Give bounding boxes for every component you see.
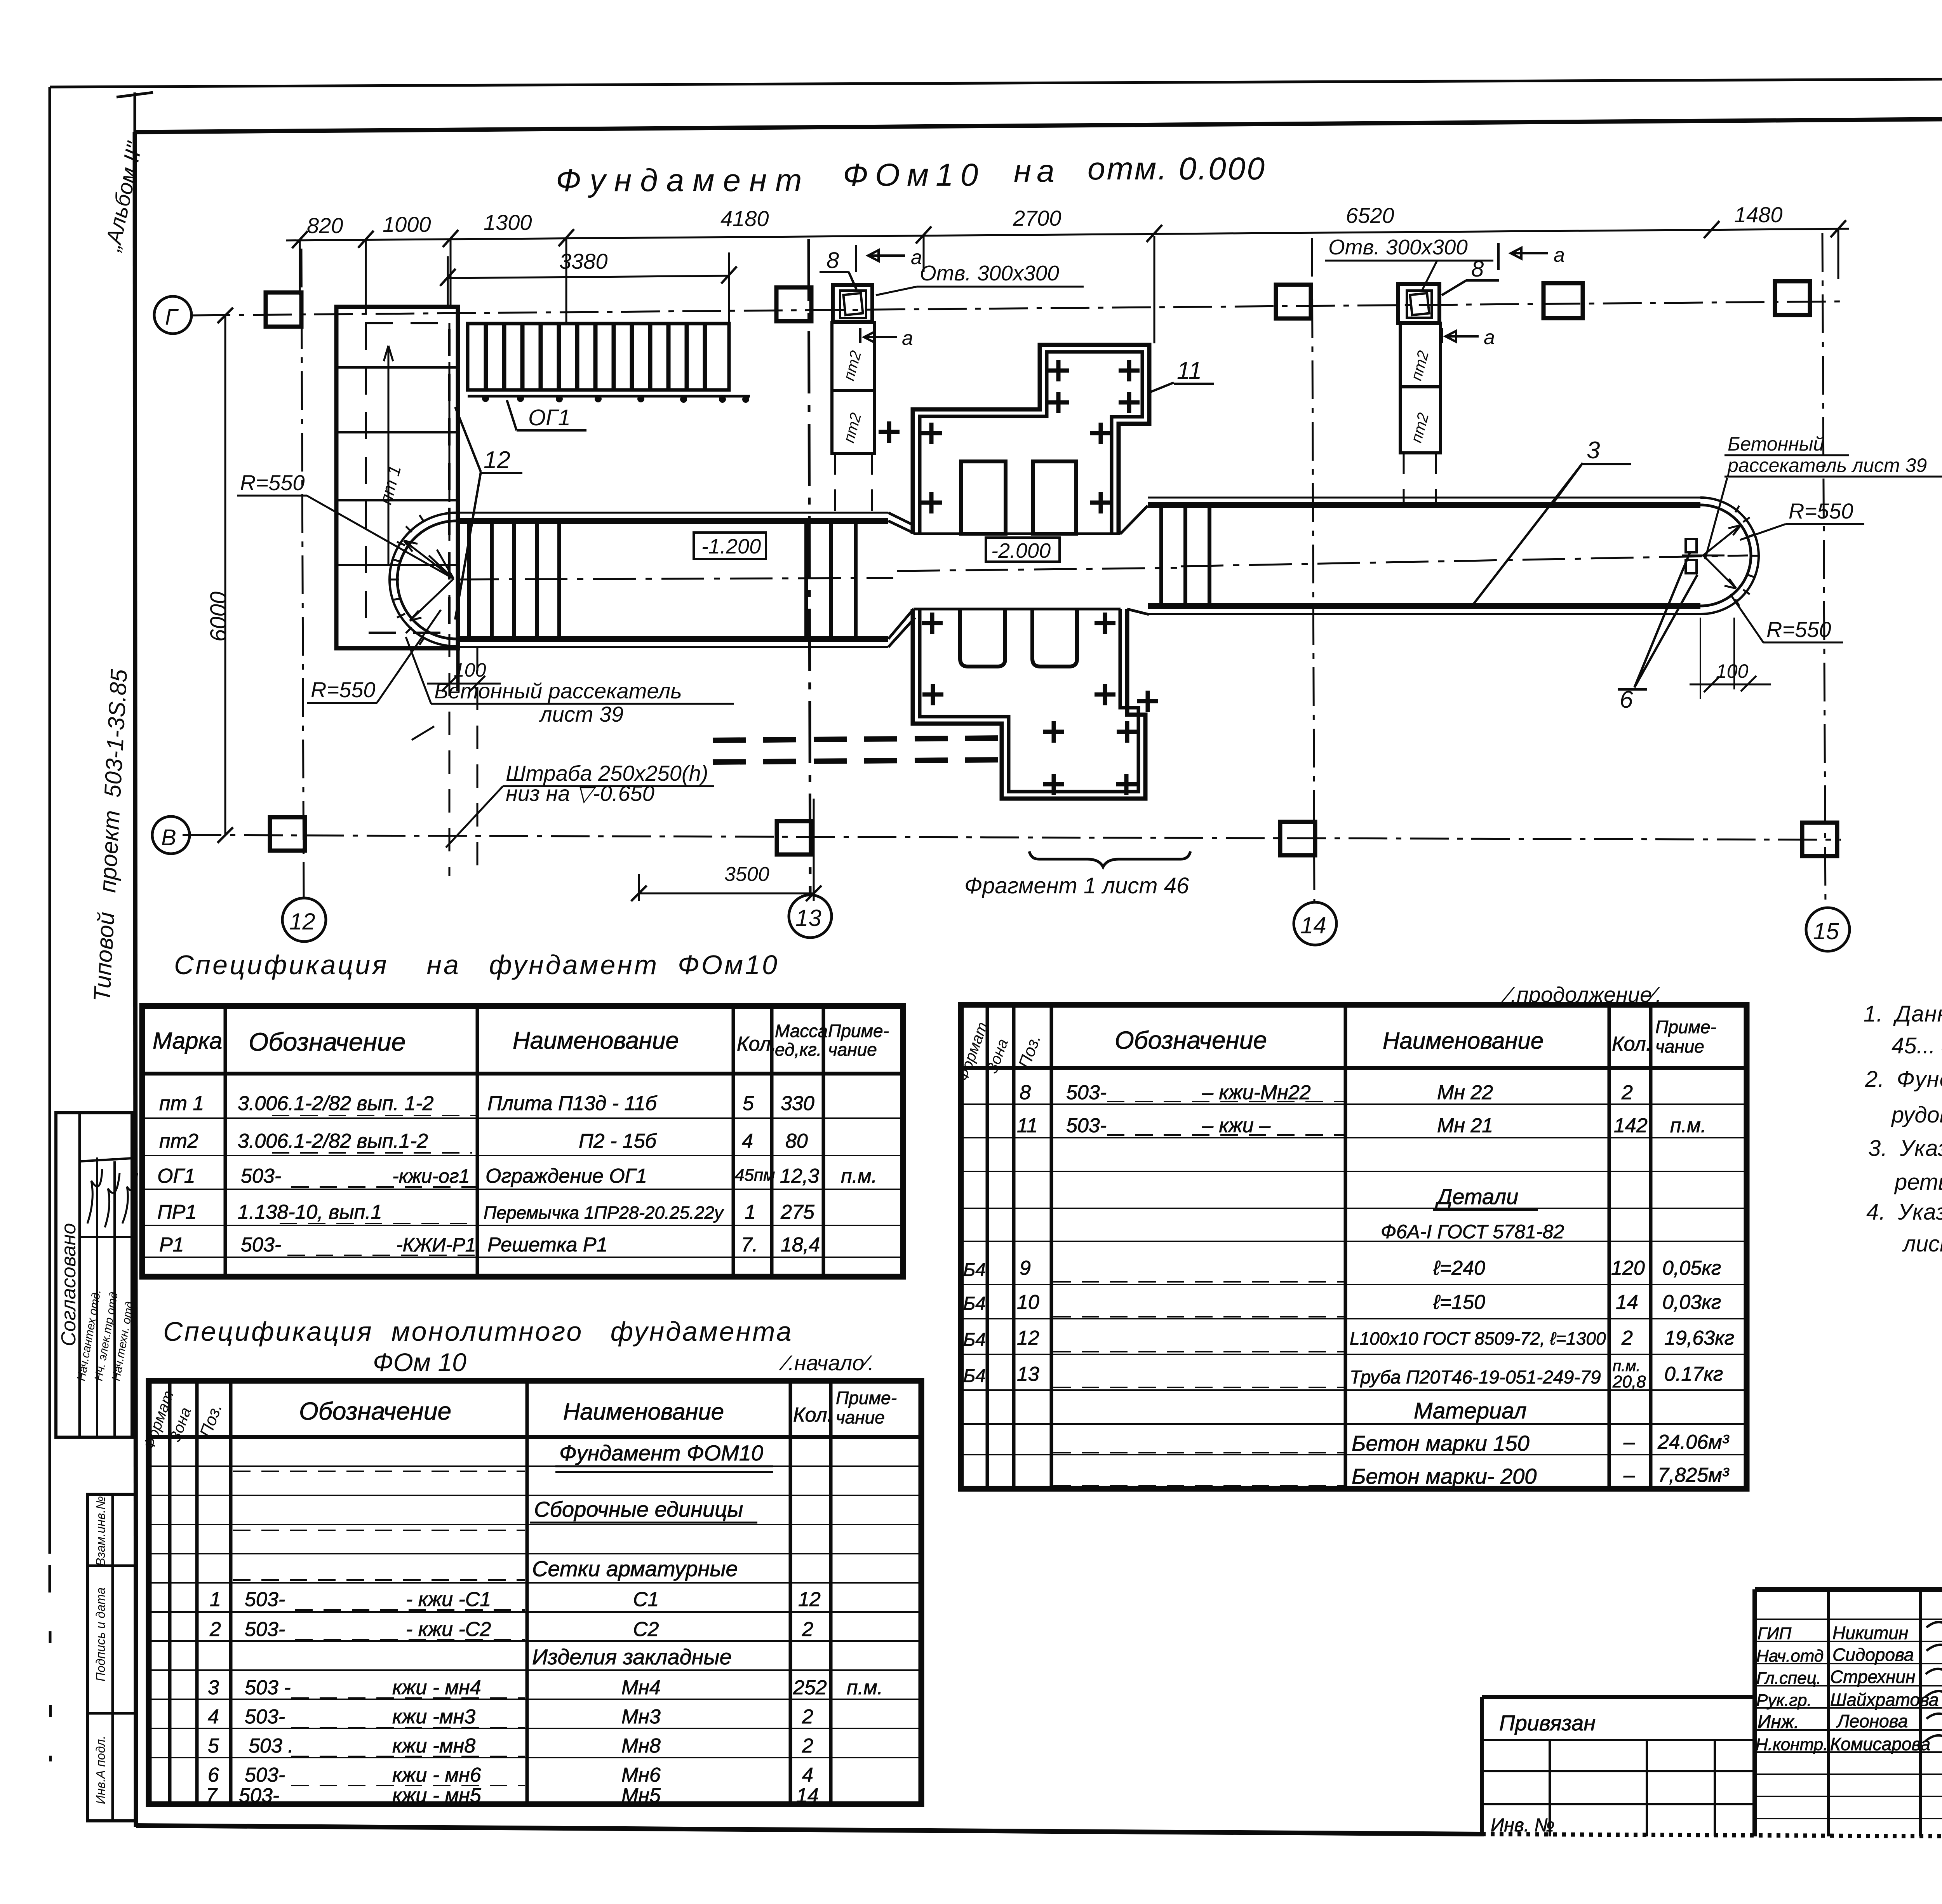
- svg-text:503-: 503-: [241, 1165, 281, 1187]
- trench bars before neck: [806, 521, 856, 639]
- svg-text:В: В: [161, 825, 176, 850]
- svg-text:24.06м³: 24.06м³: [1657, 1431, 1730, 1453]
- svg-text:-1.200: -1.200: [701, 535, 761, 558]
- radius arrows inside left arc: [404, 541, 454, 621]
- svg-text:ГИП: ГИП: [1758, 1624, 1791, 1643]
- svg-text:низ на ▽-0.650: низ на ▽-0.650: [506, 781, 654, 806]
- table3 outer border: [149, 1381, 921, 1804]
- trench right section bottom edges: [1148, 603, 1700, 609]
- signature column verticals: [1829, 1589, 1942, 1836]
- svg-text:Детали: Детали: [1435, 1184, 1518, 1209]
- sub dimension line 3380: [448, 276, 729, 278]
- svg-text:Сетки арматурные: Сетки арматурные: [532, 1556, 738, 1581]
- svg-text:Фрагмент 1 лист 46: Фрагмент 1 лист 46: [964, 873, 1189, 898]
- пт1 inner dashed rectangle: [366, 323, 449, 633]
- svg-text:-2.000: -2.000: [991, 539, 1051, 562]
- svg-text:8: 8: [1020, 1081, 1031, 1104]
- svg-text:9: 9: [1020, 1257, 1031, 1279]
- svg-text:6000: 6000: [206, 592, 231, 642]
- svg-text:Приме-: Приме-: [836, 1388, 897, 1408]
- svg-text:80: 80: [785, 1130, 808, 1152]
- bars in right trench: [1161, 505, 1209, 606]
- svg-text:Бетон марки 150: Бетон марки 150: [1352, 1431, 1530, 1455]
- svg-text:ПР1: ПР1: [157, 1201, 197, 1224]
- svg-text:503-: 503-: [245, 1588, 285, 1611]
- svg-text:Мн8: Мн8: [621, 1735, 661, 1757]
- svg-text:Шайхратова: Шайхратова: [1830, 1690, 1939, 1710]
- ОГ1 vertical bars: [486, 324, 705, 390]
- svg-text:Приме-: Приме-: [828, 1021, 889, 1041]
- signature squiggles: [1926, 1620, 1942, 1741]
- svg-text:330: 330: [781, 1092, 814, 1115]
- svg-text:2: 2: [802, 1735, 813, 1757]
- svg-text:Б4: Б4: [963, 1366, 986, 1386]
- svg-text:1480: 1480: [1734, 202, 1783, 227]
- dimension ticks on top line: [292, 220, 1846, 248]
- svg-text:Спецификация монолитного фу: Спецификация монолитного фундамента: [163, 1316, 793, 1347]
- svg-text:Гл.спец.: Гл.спец.: [1756, 1669, 1821, 1688]
- Привязан annex table: [1482, 1697, 1755, 1836]
- title block outer border: [1755, 1589, 1942, 1836]
- svg-text:2. Фундамент выполнить по п: 2. Фундамент выполнить по получению обо …: [1865, 1067, 1942, 1092]
- svg-text:Р1: Р1: [159, 1234, 184, 1256]
- signature row lines: [1755, 1619, 1942, 1819]
- пт2 strip right: [1400, 323, 1441, 387]
- svg-text:252: 252: [793, 1676, 827, 1699]
- svg-text:Привязан: Привязан: [1499, 1711, 1596, 1735]
- plus marks in pit: [879, 360, 1140, 513]
- axis 14 circle: [1294, 902, 1336, 945]
- svg-text:12,3: 12,3: [780, 1165, 819, 1187]
- svg-text:2: 2: [1621, 1327, 1633, 1349]
- svg-text:4: 4: [208, 1706, 219, 1728]
- пт2 column left assembly: [833, 285, 872, 322]
- svg-text:Ф6А-I ГОСТ 5781-82: Ф6А-I ГОСТ 5781-82: [1381, 1221, 1564, 1243]
- dimension extension verticals: [300, 229, 1838, 343]
- svg-text:a: a: [1484, 326, 1495, 349]
- svg-text:7.: 7.: [741, 1234, 758, 1256]
- svg-text:8: 8: [827, 248, 839, 273]
- svg-text:Мн 21: Мн 21: [1437, 1114, 1493, 1137]
- svg-text:п.м.: п.м.: [1670, 1114, 1706, 1137]
- svg-text:Спецификация на фундамент: Спецификация на фундамент ФОм10: [174, 950, 779, 980]
- ograzhdenie ОГ1 strip: [468, 324, 729, 390]
- Согласовано divider vertical: [78, 1113, 81, 1437]
- pit lower inner wall: [920, 609, 1138, 792]
- svg-text:L100х10 ГОСТ 8509-72, ℓ=1300: L100х10 ГОСТ 8509-72, ℓ=1300: [1350, 1328, 1606, 1349]
- svg-text:Перемычка 1ПР28-20.25.22у: Перемычка 1ПР28-20.25.22у: [484, 1203, 724, 1223]
- svg-text:1. Данный лист см. совместно: 1. Данный лист см. совместно с листами 1…: [1864, 1001, 1942, 1027]
- svg-text:отм. 0.000: отм. 0.000: [1088, 151, 1266, 186]
- svg-text:чание: чание: [828, 1039, 877, 1060]
- section mark a top left: [856, 245, 905, 272]
- пт1 vertical arrow line: [384, 346, 393, 565]
- svg-text:-кжи-ог1: -кжи-ог1: [392, 1165, 470, 1187]
- svg-text:0,03кг: 0,03кг: [1662, 1291, 1721, 1314]
- svg-text:820: 820: [307, 213, 343, 238]
- axis 12 circle: [282, 898, 326, 942]
- svg-text:Мн4: Мн4: [621, 1676, 661, 1699]
- svg-text:Подпись и дата: Подпись и дата: [94, 1587, 108, 1681]
- axis В dash-dot line: [183, 835, 1841, 840]
- svg-text:15: 15: [1813, 918, 1839, 944]
- svg-text:ℓ=150: ℓ=150: [1433, 1291, 1485, 1314]
- svg-text:ФОм 10: ФОм 10: [373, 1348, 466, 1377]
- top dimension line: [286, 229, 1849, 240]
- trench left section bottom edges: [456, 636, 888, 642]
- svg-text:-КЖИ-Р1: -КЖИ-Р1: [396, 1234, 476, 1256]
- svg-text:Марка: Марка: [153, 1028, 222, 1054]
- svg-text:3: 3: [1587, 437, 1600, 464]
- svg-text:Плита П13д - 11б: Плита П13д - 11б: [487, 1092, 657, 1115]
- trench left section top edges: [456, 512, 888, 514]
- svg-text:14: 14: [796, 1784, 819, 1807]
- svg-text:С2: С2: [633, 1618, 659, 1641]
- svg-text:кжи - мн5: кжи - мн5: [392, 1784, 482, 1807]
- svg-text:Бетонный: Бетонный: [1728, 433, 1824, 455]
- svg-text:10: 10: [1017, 1291, 1039, 1314]
- table1 column lines: [225, 1006, 823, 1277]
- svg-text:рассекатель лист 39: рассекатель лист 39: [1727, 454, 1927, 476]
- SECTION: notes: [1864, 1001, 1942, 1257]
- svg-text:503 -: 503 -: [245, 1676, 291, 1699]
- svg-text:Стрехнин: Стрехнин: [1830, 1667, 1915, 1687]
- svg-text:503-: 503-: [245, 1764, 285, 1786]
- svg-text:503-: 503-: [245, 1706, 285, 1728]
- svg-text:6: 6: [208, 1764, 219, 1786]
- pit upper inner wall: [920, 352, 1142, 534]
- svg-text:Масса: Масса: [775, 1021, 828, 1041]
- svg-text:4: 4: [802, 1764, 813, 1786]
- svg-text:Б4: Б4: [963, 1330, 986, 1350]
- table3 row lines: [149, 1466, 921, 1758]
- svg-text:Кол.: Кол.: [1612, 1033, 1651, 1055]
- svg-text:a: a: [902, 327, 913, 350]
- svg-text:100: 100: [454, 659, 486, 681]
- svg-text:12: 12: [484, 447, 510, 473]
- svg-text:a: a: [911, 246, 922, 269]
- svg-text:1000: 1000: [383, 212, 431, 237]
- svg-text:Наименование: Наименование: [1383, 1028, 1544, 1054]
- svg-text:Мн5: Мн5: [621, 1784, 661, 1807]
- SECTION: left margin: [56, 139, 147, 1821]
- svg-text:503-: 503-: [245, 1618, 285, 1641]
- inner frame corner tick top-left: [117, 92, 153, 132]
- svg-text:12: 12: [1017, 1327, 1039, 1349]
- svg-text:ФОм10: ФОм10: [843, 157, 985, 193]
- svg-text:реть листы 7,16.: реть листы 7,16.: [1894, 1170, 1942, 1195]
- section mark a bottom right: [1442, 328, 1479, 343]
- svg-text:ℓ=240: ℓ=240: [1433, 1257, 1485, 1279]
- svg-text:12: 12: [289, 908, 315, 935]
- svg-text:С1: С1: [633, 1588, 659, 1611]
- inner frame top line: [135, 115, 1942, 132]
- axis В circle: [152, 816, 190, 854]
- svg-text:Комисарова: Комисарова: [1830, 1734, 1930, 1754]
- axis Г circle: [154, 296, 191, 334]
- svg-text:пт2: пт2: [159, 1130, 198, 1152]
- table1 header separator: [142, 1072, 903, 1076]
- bottom border dotted segment: [1482, 1834, 1942, 1839]
- svg-text:3500: 3500: [724, 863, 769, 886]
- svg-text:рудования: рудования: [1891, 1102, 1942, 1128]
- svg-text:кжи - мн4: кжи - мн4: [392, 1676, 481, 1699]
- svg-text:12: 12: [798, 1588, 821, 1611]
- svg-text:Кол.: Кол.: [737, 1033, 776, 1055]
- svg-text:Наименование: Наименование: [563, 1399, 724, 1425]
- svg-text:R=550: R=550: [240, 470, 305, 495]
- bottom border solid segment: [136, 1826, 1482, 1834]
- table2 row lines: [961, 1104, 1747, 1455]
- SECTION: table2: [954, 982, 1747, 1489]
- svg-text:6520: 6520: [1346, 203, 1394, 228]
- ОГ1 bottom rail with dots: [468, 395, 750, 398]
- table2 column lines: [987, 1005, 1651, 1489]
- svg-text:1: 1: [210, 1588, 221, 1611]
- svg-text:19,63кг: 19,63кг: [1664, 1327, 1734, 1349]
- svg-text:20,8: 20,8: [1612, 1372, 1646, 1391]
- axis 15 circle: [1806, 908, 1850, 951]
- svg-text:2700: 2700: [1013, 206, 1061, 230]
- штраба dashed strip: [713, 738, 1006, 740]
- svg-text:4: 4: [742, 1130, 753, 1152]
- Согласовано box: [56, 1113, 132, 1437]
- svg-text:чание: чание: [1655, 1036, 1704, 1056]
- svg-text:Приме-: Приме-: [1655, 1017, 1716, 1037]
- svg-text:8: 8: [1471, 256, 1484, 282]
- left vertical dimension 6000: [224, 315, 226, 835]
- column squares on axis Г: [266, 292, 301, 327]
- SECTION: table3: [140, 1316, 921, 1807]
- svg-text:Ограждение ОГ1: Ограждение ОГ1: [486, 1165, 647, 1187]
- svg-text:0,05кг: 0,05кг: [1662, 1257, 1721, 1279]
- svg-text:2: 2: [209, 1618, 221, 1641]
- column squares on axis В: [270, 817, 305, 851]
- trench centerline right: [1181, 555, 1748, 566]
- plate пт1 outline: [336, 307, 458, 648]
- wall strip element 12: [456, 307, 460, 691]
- svg-text:Обозначение: Обозначение: [1115, 1026, 1267, 1054]
- svg-text:Изделия закладные: Изделия закладные: [532, 1645, 732, 1669]
- svg-text:45... 47: 45... 47: [1892, 1033, 1942, 1058]
- svg-text:4180: 4180: [720, 206, 769, 231]
- SECTION: table1: [142, 950, 903, 1277]
- lower equipment slots: [960, 609, 1005, 667]
- table1 outer border: [142, 1006, 903, 1277]
- svg-text:Никитин: Никитин: [1832, 1623, 1908, 1643]
- svg-text:13: 13: [795, 905, 821, 931]
- SECTION: main title: [556, 151, 1266, 198]
- svg-text:3.006.1-2/82 вып.1-2: 3.006.1-2/82 вып.1-2: [238, 1130, 428, 1152]
- svg-text:7,825м³: 7,825м³: [1658, 1464, 1730, 1486]
- svg-text:Кол.: Кол.: [793, 1404, 833, 1426]
- svg-text:Решетка Р1: Решетка Р1: [487, 1234, 607, 1256]
- axis 14 vertical dash-dot: [1312, 238, 1314, 901]
- svg-text:лист 39: лист 39: [539, 702, 623, 726]
- pit lower outer wall: [913, 609, 1145, 799]
- channel through pit top/bottom: [914, 533, 1121, 535]
- svg-text:1.138-10, вып.1: 1.138-10, вып.1: [238, 1201, 382, 1224]
- пт1 horizontal joints: [336, 367, 458, 565]
- svg-text:1: 1: [745, 1201, 756, 1224]
- svg-text:Н.контр.: Н.контр.: [1756, 1735, 1828, 1754]
- SECTION: plan view: [152, 202, 1942, 951]
- trench right section top edges: [1148, 497, 1700, 499]
- svg-text:R=550: R=550: [1789, 499, 1853, 523]
- svg-text:3380: 3380: [559, 249, 608, 273]
- svg-text:503-: 503-: [1066, 1114, 1107, 1137]
- svg-text:5: 5: [743, 1092, 754, 1115]
- svg-text:4. Указания по выполнению ка: 4. Указания по выполнению канавы смотрет…: [1866, 1199, 1942, 1225]
- svg-text:на: на: [1014, 153, 1060, 189]
- table3 dashed fill lines: [233, 1471, 525, 1786]
- table2 dashed fill lines: [1053, 1102, 1344, 1486]
- svg-text:Мн3: Мн3: [621, 1706, 661, 1728]
- svg-text:Обозначение: Обозначение: [249, 1027, 405, 1056]
- svg-text:R=550: R=550: [311, 677, 376, 702]
- axis 12 vertical dash-dot: [301, 249, 304, 897]
- svg-text:Обозначение: Обозначение: [299, 1397, 451, 1425]
- trench right end cap arc: [1700, 498, 1759, 614]
- svg-text:Б4: Б4: [963, 1260, 986, 1280]
- -1.200 level box: [694, 533, 766, 559]
- svg-text:Инж.: Инж.: [1758, 1712, 1799, 1732]
- table2 header separator: [961, 1066, 1747, 1070]
- svg-text:Наименование: Наименование: [513, 1027, 679, 1054]
- svg-text:Фундамент: Фундамент: [556, 163, 811, 198]
- svg-text:Сидорова: Сидорова: [1832, 1645, 1914, 1665]
- table1 row lines: [142, 1118, 903, 1257]
- svg-text:–: –: [1623, 1464, 1635, 1486]
- svg-text:Труба П20Т46-19-051-249-79: Труба П20Т46-19-051-249-79: [1350, 1367, 1601, 1388]
- svg-text:Бетонный рассекатель: Бетонный рассекатель: [434, 679, 682, 703]
- svg-text:- кжи -С2: - кжи -С2: [406, 1618, 491, 1641]
- axis 13 circle: [789, 895, 832, 938]
- svg-text:лист 21.: лист 21.: [1902, 1231, 1942, 1257]
- signature squiggles: [87, 1169, 137, 1227]
- svg-text:1300: 1300: [484, 210, 532, 235]
- 3500 dimension: [639, 799, 814, 901]
- svg-text:0.17кг: 0.17кг: [1664, 1363, 1723, 1385]
- svg-text:Фундамент ФОМ10: Фундамент ФОМ10: [559, 1441, 763, 1465]
- svg-text:Инв. №: Инв. №: [1491, 1815, 1554, 1836]
- svg-text:Г: Г: [165, 305, 179, 330]
- -2.000 level box: [986, 538, 1060, 562]
- section mark a bottom left: [860, 328, 897, 343]
- svg-text:3.006.1-2/82 вып. 1-2: 3.006.1-2/82 вып. 1-2: [238, 1092, 434, 1115]
- svg-text:14: 14: [1300, 912, 1326, 938]
- Фрагмент bracket: [1029, 851, 1190, 867]
- axis 13 vertical dash-dot: [809, 239, 810, 894]
- svg-text:п.м.: п.м.: [847, 1676, 883, 1699]
- svg-text:14: 14: [1616, 1291, 1638, 1314]
- channel centerline: [897, 568, 1177, 571]
- svg-text:ОГ1: ОГ1: [528, 405, 571, 430]
- svg-text:кжи - мн6: кжи - мн6: [392, 1764, 481, 1786]
- svg-text:кжи -мн3: кжи -мн3: [392, 1706, 475, 1728]
- svg-text:7: 7: [206, 1784, 218, 1807]
- trench centerline left: [456, 578, 893, 580]
- svg-text:–: –: [1623, 1431, 1635, 1453]
- outer top border line: [50, 77, 1942, 87]
- svg-text:2: 2: [1621, 1081, 1633, 1104]
- svg-text:503-: 503-: [1066, 1081, 1107, 1104]
- svg-text:120: 120: [1611, 1257, 1645, 1279]
- svg-text:п.м.: п.м.: [841, 1165, 877, 1187]
- pit upper outer wall: [913, 345, 1149, 534]
- svg-text:Отв. 300х300: Отв. 300х300: [920, 261, 1059, 285]
- neck taper right: [1121, 506, 1149, 614]
- svg-text:18,4: 18,4: [781, 1234, 820, 1256]
- svg-text:Материал: Материал: [1414, 1398, 1527, 1424]
- svg-text:П2 - 15б: П2 - 15б: [579, 1130, 657, 1152]
- svg-text:11: 11: [1177, 357, 1202, 384]
- inner frame left line: [135, 132, 136, 1827]
- svg-text:2: 2: [802, 1618, 813, 1641]
- radius arrows inside right arc: [1703, 525, 1741, 588]
- SECTION: title block: [1482, 1589, 1942, 1838]
- svg-text:– кжи –: – кжи –: [1202, 1114, 1271, 1137]
- svg-text:Инв.А подл.: Инв.А подл.: [94, 1736, 108, 1804]
- svg-text:503 .: 503 .: [249, 1735, 294, 1757]
- axis 15 vertical dash-dot: [1822, 233, 1825, 907]
- svg-text:Мн 22: Мн 22: [1437, 1081, 1493, 1104]
- small anchor rects at right cap: [1686, 539, 1697, 552]
- svg-text:кжи -мн8: кжи -мн8: [392, 1735, 475, 1757]
- svg-text:3. Указания по грунтовым ус: 3. Указания по грунтовым условиям смот-: [1868, 1136, 1942, 1161]
- svg-text:3: 3: [208, 1676, 219, 1699]
- section mark a top right: [1498, 243, 1548, 270]
- svg-text:Согласовано: Согласовано: [57, 1223, 80, 1346]
- table1 dashed fill lines: [272, 1116, 476, 1255]
- svg-text:100: 100: [1716, 660, 1749, 682]
- outer left border line: [50, 87, 50, 1761]
- table2 outer border: [961, 1005, 1747, 1489]
- svg-text:503-: 503-: [241, 1234, 281, 1256]
- svg-text:R=550: R=550: [1766, 617, 1831, 642]
- svg-text:Леонова: Леонова: [1836, 1711, 1908, 1731]
- svg-text:пт 1: пт 1: [159, 1092, 204, 1115]
- table3 column lines: [170, 1381, 831, 1804]
- table3 header separator: [149, 1435, 921, 1439]
- axis Г dash-dot line: [191, 301, 1841, 315]
- svg-text:чание: чание: [836, 1407, 885, 1427]
- svg-text:⁄.начало⁄.: ⁄.начало⁄.: [778, 1351, 874, 1375]
- arc hatch ticks: [391, 515, 424, 645]
- svg-text:Бетон марки- 200: Бетон марки- 200: [1352, 1464, 1537, 1488]
- svg-text:Мн6: Мн6: [621, 1764, 661, 1786]
- svg-text:2: 2: [802, 1706, 813, 1728]
- svg-text:142: 142: [1614, 1114, 1648, 1137]
- bottom stack boxes: Взам / Подпись / Инв: [87, 1494, 136, 1821]
- upper equipment slots: [961, 461, 1006, 534]
- пт2 column right assembly: [1398, 284, 1439, 323]
- trench grating bars Р1 left: [469, 521, 559, 639]
- Согласовано inner grid: [80, 1157, 132, 1437]
- svg-text:11: 11: [1017, 1114, 1038, 1137]
- svg-text:- кжи -С1: - кжи -С1: [406, 1588, 491, 1611]
- trench left end cap arc: [390, 513, 456, 646]
- пт2 strip left: [832, 322, 875, 391]
- svg-text:Нач.отд: Нач.отд: [1756, 1646, 1824, 1666]
- svg-text:– кжи-Мн22: – кжи-Мн22: [1202, 1081, 1311, 1104]
- svg-text:Б4: Б4: [963, 1293, 986, 1314]
- svg-text:ед,кг.: ед,кг.: [775, 1039, 821, 1060]
- svg-text:503-: 503-: [239, 1784, 279, 1807]
- right arc hatch ticks: [1735, 506, 1759, 606]
- svg-text:Рук.гр.: Рук.гр.: [1756, 1691, 1812, 1710]
- neck taper left: [888, 513, 915, 647]
